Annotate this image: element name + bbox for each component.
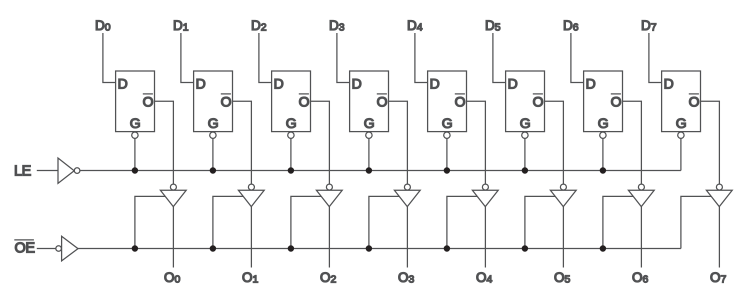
wire tri-state buffer 2 output to O2 xyxy=(328,207,330,268)
svg-text:G: G xyxy=(286,115,297,131)
latch 2 body xyxy=(272,71,311,132)
svg-text:D5: D5 xyxy=(485,18,501,34)
latch 4 pin O-bar label xyxy=(455,94,466,110)
tri-state buffer 3 input bubble xyxy=(404,184,410,190)
wire latch 6 pin G to LE line xyxy=(602,138,604,170)
tri-state buffer 5 input bubble xyxy=(560,184,566,190)
svg-text:O1: O1 xyxy=(242,270,259,286)
svg-text:O: O xyxy=(611,94,622,110)
wire latch 7 O-bar to tri-state buffer 7 input xyxy=(701,101,720,184)
LE line wire xyxy=(80,170,681,172)
junction latch 3 G / LE line xyxy=(366,167,372,173)
tri-state buffer 2 xyxy=(316,190,342,206)
wire D1 input to latch 1 pin D xyxy=(181,33,194,83)
wire latch 0 O-bar to tri-state buffer 0 input xyxy=(155,101,174,184)
svg-text:OE: OE xyxy=(15,241,36,257)
wire latch 1 pin G to LE line xyxy=(212,138,214,170)
wire LE input xyxy=(37,170,58,172)
latch 7 pin G bubble xyxy=(678,132,684,138)
wire latch 4 pin G to LE line xyxy=(446,138,448,170)
latch 4 pin G bubble xyxy=(444,132,450,138)
wire latch 6 O-bar to tri-state buffer 6 input xyxy=(623,101,642,184)
wire latch 4 O-bar to tri-state buffer 4 input xyxy=(467,101,486,184)
svg-text:D: D xyxy=(118,76,128,92)
junction tri-state buffer 2 enable / OE line xyxy=(288,245,294,251)
wire OE line to tri-state buffer 1 enable xyxy=(213,196,244,248)
latch 2 pin G bubble xyxy=(288,132,294,138)
svg-text:D6: D6 xyxy=(563,18,579,34)
svg-text:O: O xyxy=(143,94,154,110)
input OE-bar label xyxy=(14,240,35,257)
svg-text:O: O xyxy=(533,94,544,110)
svg-text:D: D xyxy=(664,76,674,92)
wire OE input xyxy=(37,248,56,250)
wire tri-state buffer 4 output to O4 xyxy=(484,207,486,268)
junction tri-state buffer 5 enable / OE line xyxy=(522,245,528,251)
wire D3 input to latch 3 pin D xyxy=(337,33,350,83)
svg-text:O: O xyxy=(377,94,388,110)
wire D5 input to latch 5 pin D xyxy=(493,33,506,83)
latch 0 pin O-bar label xyxy=(143,94,154,110)
tri-state buffer 4 xyxy=(472,190,498,206)
buffer U1 (LE driver) xyxy=(58,158,74,183)
svg-text:G: G xyxy=(520,115,531,131)
svg-text:D2: D2 xyxy=(251,18,267,34)
wire D4 input to latch 4 pin D xyxy=(415,33,428,83)
latch 3 pin O-bar label xyxy=(377,94,388,110)
svg-text:O5: O5 xyxy=(554,270,571,286)
OE line wire xyxy=(78,248,681,250)
svg-text:O2: O2 xyxy=(320,270,337,286)
tri-state buffer 7 input bubble xyxy=(716,184,722,190)
svg-text:G: G xyxy=(676,115,687,131)
svg-text:O: O xyxy=(221,94,232,110)
wire latch 7 pin G to LE line xyxy=(680,138,682,170)
buffer U1 output bubble xyxy=(74,168,80,174)
tri-state buffer 0 input bubble xyxy=(170,184,176,190)
wire OE line to tri-state buffer 0 enable xyxy=(135,196,166,248)
svg-text:D: D xyxy=(508,76,518,92)
wire OE line to tri-state buffer 3 enable xyxy=(369,196,400,248)
svg-text:O: O xyxy=(299,94,310,110)
wire OE line to tri-state buffer 2 enable xyxy=(291,196,322,248)
wire D7 input to latch 7 pin D xyxy=(649,33,662,83)
svg-text:LE: LE xyxy=(14,164,32,180)
latch 3 pin G bubble xyxy=(366,132,372,138)
junction tri-state buffer 1 enable / OE line xyxy=(210,245,216,251)
wire D0 input to latch 0 pin D xyxy=(103,33,116,83)
wire OE line to tri-state buffer 7 enable xyxy=(681,196,712,248)
wire tri-state buffer 6 output to O6 xyxy=(640,207,642,268)
tri-state buffer 2 input bubble xyxy=(326,184,332,190)
junction latch 5 G / LE line xyxy=(522,167,528,173)
wire tri-state buffer 5 output to O5 xyxy=(562,207,564,268)
wire tri-state buffer 0 output to O0 xyxy=(172,207,174,268)
junction latch 4 G / LE line xyxy=(444,167,450,173)
latch 7 body xyxy=(662,71,701,132)
junction tri-state buffer 0 enable / OE line xyxy=(132,245,138,251)
buffer U2 input bubble xyxy=(56,246,62,252)
wire latch 5 O-bar to tri-state buffer 5 input xyxy=(545,101,564,184)
tri-state buffer 7 xyxy=(706,190,732,206)
svg-text:O6: O6 xyxy=(632,270,649,286)
latch 3 body xyxy=(350,71,389,132)
latch 6 body xyxy=(584,71,623,132)
svg-text:G: G xyxy=(598,115,609,131)
latch 1 body xyxy=(194,71,233,132)
svg-text:D: D xyxy=(196,76,206,92)
latch 1 pin G bubble xyxy=(210,132,216,138)
wire tri-state buffer 7 output to O7 xyxy=(718,207,720,268)
svg-text:D: D xyxy=(430,76,440,92)
junction tri-state buffer 4 enable / OE line xyxy=(444,245,450,251)
tri-state buffer 6 xyxy=(628,190,654,206)
wire latch 1 O-bar to tri-state buffer 1 input xyxy=(233,101,252,184)
latch 5 body xyxy=(506,71,545,132)
latch 7 pin O-bar label xyxy=(689,94,700,110)
wire latch 0 pin G to LE line xyxy=(134,138,136,170)
junction tri-state buffer 6 enable / OE line xyxy=(600,245,606,251)
svg-text:D: D xyxy=(274,76,284,92)
tri-state buffer 0 xyxy=(160,190,186,206)
buffer U2 (OE driver) xyxy=(62,236,78,261)
latch 5 pin G bubble xyxy=(522,132,528,138)
svg-text:G: G xyxy=(364,115,375,131)
latch 2 pin O-bar label xyxy=(299,94,310,110)
latch 6 pin G bubble xyxy=(600,132,606,138)
tri-state buffer 4 input bubble xyxy=(482,184,488,190)
junction latch 2 G / LE line xyxy=(288,167,294,173)
wire latch 3 pin G to LE line xyxy=(368,138,370,170)
svg-text:D7: D7 xyxy=(641,18,657,34)
latch 5 pin O-bar label xyxy=(533,94,544,110)
svg-text:O7: O7 xyxy=(710,270,727,286)
wire latch 2 O-bar to tri-state buffer 2 input xyxy=(311,101,330,184)
wire D6 input to latch 6 pin D xyxy=(571,33,584,83)
svg-text:D1: D1 xyxy=(173,18,189,34)
wire tri-state buffer 1 output to O1 xyxy=(250,207,252,268)
wire OE line to tri-state buffer 6 enable xyxy=(603,196,634,248)
svg-text:D3: D3 xyxy=(329,18,345,34)
svg-text:D4: D4 xyxy=(407,18,423,34)
svg-text:D: D xyxy=(586,76,596,92)
wire OE line to tri-state buffer 5 enable xyxy=(525,196,556,248)
latch 6 pin O-bar label xyxy=(611,94,622,110)
wire latch 3 O-bar to tri-state buffer 3 input xyxy=(389,101,408,184)
svg-text:G: G xyxy=(130,115,141,131)
svg-text:D: D xyxy=(352,76,362,92)
svg-text:O: O xyxy=(689,94,700,110)
latch 0 body xyxy=(116,71,155,132)
tri-state buffer 5 xyxy=(550,190,576,206)
svg-text:G: G xyxy=(442,115,453,131)
wire latch 2 pin G to LE line xyxy=(290,138,292,170)
svg-text:O4: O4 xyxy=(476,270,493,286)
svg-text:D0: D0 xyxy=(95,18,111,34)
wire OE line to tri-state buffer 4 enable xyxy=(447,196,478,248)
wire latch 5 pin G to LE line xyxy=(524,138,526,170)
tri-state buffer 3 xyxy=(394,190,420,206)
wire tri-state buffer 3 output to O3 xyxy=(406,207,408,268)
tri-state buffer 1 input bubble xyxy=(248,184,254,190)
junction tri-state buffer 3 enable / OE line xyxy=(366,245,372,251)
latch 1 pin O-bar label xyxy=(221,94,232,110)
junction latch 6 G / LE line xyxy=(600,167,606,173)
junction latch 0 G / LE line xyxy=(132,167,138,173)
svg-text:O0: O0 xyxy=(164,270,181,286)
wire D2 input to latch 2 pin D xyxy=(259,33,272,83)
svg-text:O: O xyxy=(455,94,466,110)
junction latch 1 G / LE line xyxy=(210,167,216,173)
svg-text:G: G xyxy=(208,115,219,131)
latch 4 body xyxy=(428,71,467,132)
tri-state buffer 6 input bubble xyxy=(638,184,644,190)
tri-state buffer 1 xyxy=(238,190,264,206)
svg-text:O3: O3 xyxy=(398,270,415,286)
latch 0 pin G bubble xyxy=(132,132,138,138)
